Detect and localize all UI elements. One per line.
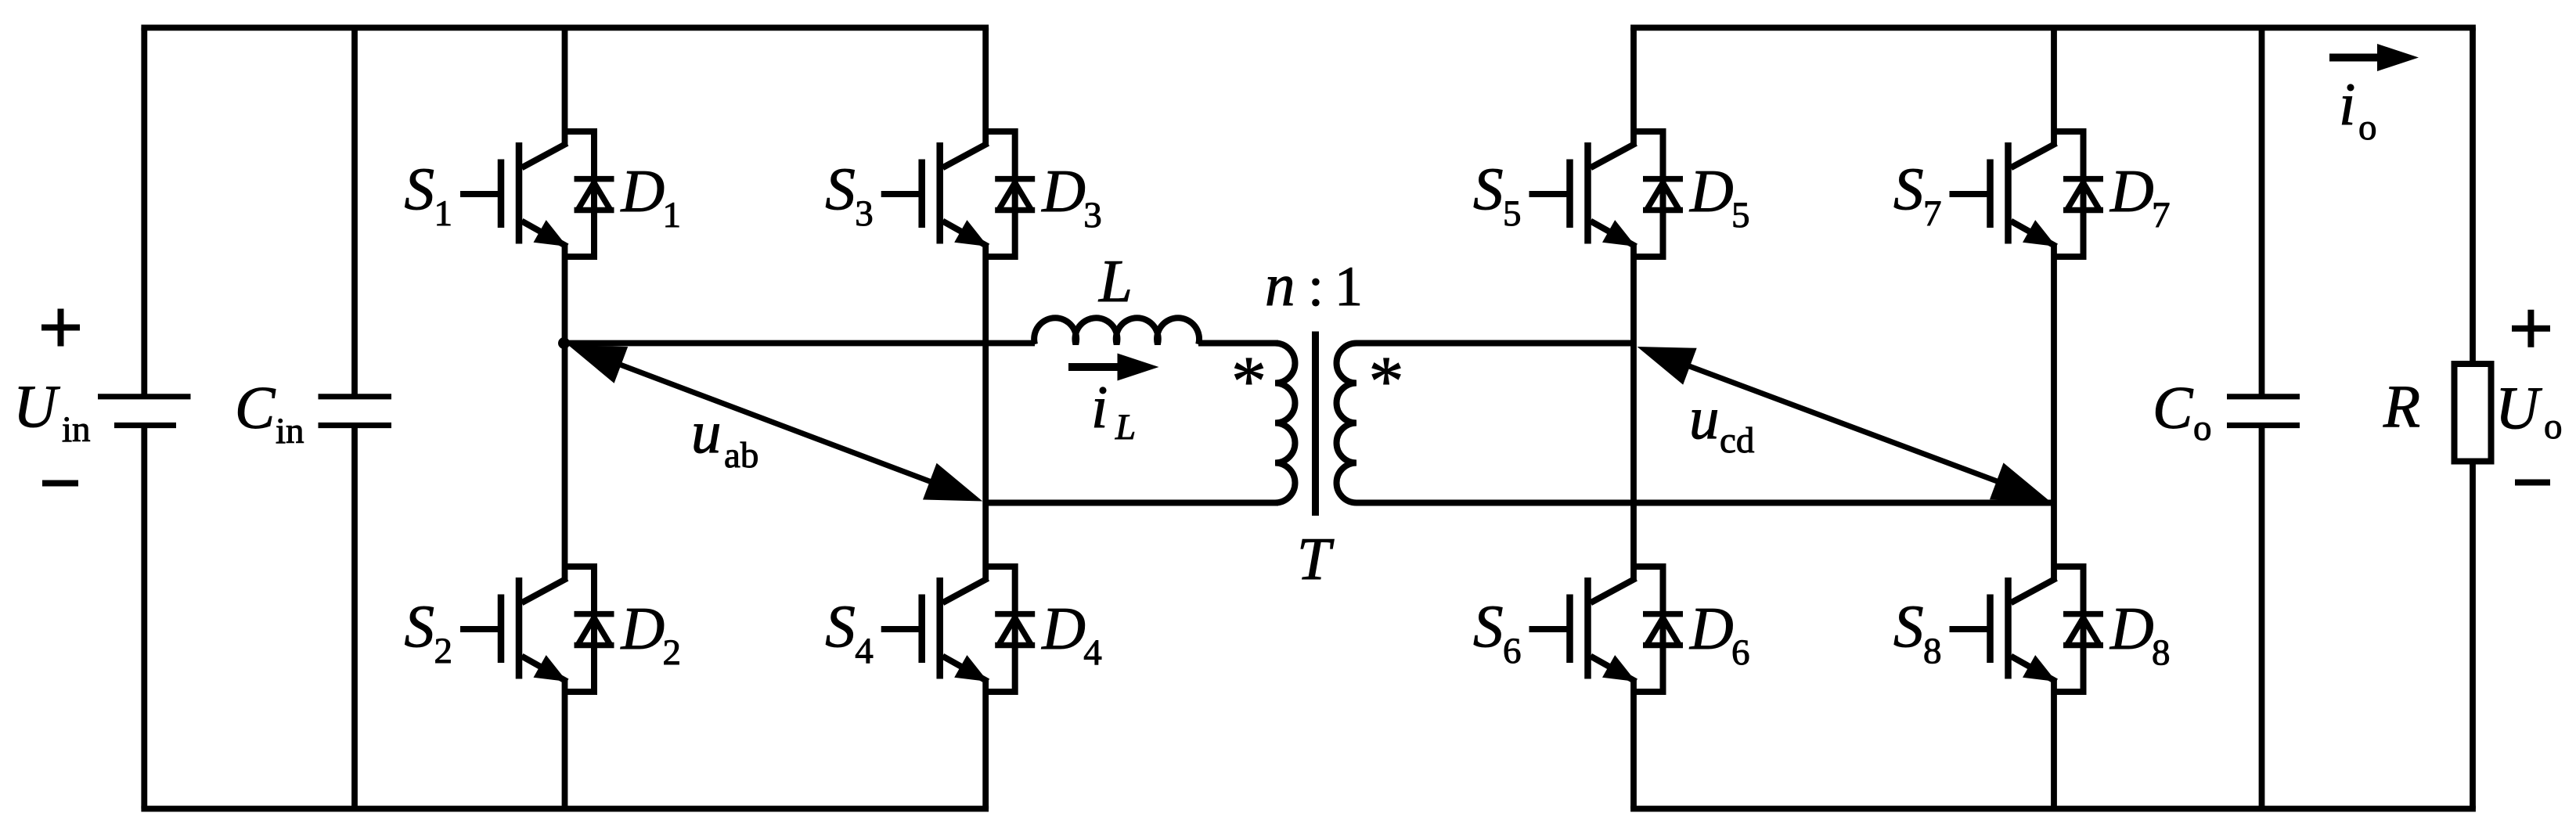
wire: Co branch lower [2259,426,2265,809]
label + (output) [2512,326,2550,332]
svg-text:6: 6 [1731,632,1750,673]
wire: source branch lower [141,426,147,809]
inductor L [1034,318,1199,344]
node a junction dot [558,337,570,349]
wire: load branch upper [2470,27,2476,364]
wire: leg A upper (rail to top switch) [562,27,568,146]
svg-text:T: T [1297,525,1335,592]
arrow ucd (node c to node d) [1637,347,2050,501]
arrow io [2329,54,2382,62]
wire: Cin branch upper [351,27,358,396]
wire: source branch upper [141,27,147,396]
svg-text:S: S [825,592,856,660]
diode D1 (antiparallel) [565,131,614,257]
svg-text:1: 1 [434,193,453,234]
svg-text:7: 7 [2152,195,2171,236]
svg-text:S: S [1893,592,1924,660]
svg-text:in: in [62,409,91,450]
wire: output-bridge bottom rail [1630,806,2476,812]
transistor S5 (IGBT) [1529,142,1637,246]
svg-text:cd: cd [1720,420,1754,461]
wire: leg D upper (rail to top switch) [2051,27,2057,146]
transistor S1 (IGBT) [460,142,567,246]
svg-text:*: * [1231,343,1266,420]
svg-text:S: S [1893,155,1924,222]
svg-text:L: L [1115,407,1136,448]
svg-text:u: u [1689,384,1720,452]
svg-text:o: o [2358,107,2377,148]
transistor S8 (IGBT) [1950,578,2057,682]
svg-text:6: 6 [1503,631,1522,671]
transistor S7 (IGBT) [1950,142,2057,246]
wire: Co branch upper [2259,27,2265,396]
svg-text:8: 8 [2152,632,2171,673]
svg-text:ab: ab [724,435,758,476]
wire: leg B lower (to bottom rail) [982,678,989,809]
transistor S2 (IGBT) [460,578,567,682]
svg-text:U: U [13,372,60,440]
svg-text:D: D [621,595,665,662]
svg-text:in: in [276,411,304,452]
wire: leg C upper (rail to top switch) [1630,27,1637,146]
battery Uin plate + [98,394,191,399]
wire: Cin branch lower [351,426,358,809]
svg-text:C: C [2153,374,2194,441]
svg-text:R: R [2383,372,2420,440]
transistor S6 (IGBT) [1529,578,1637,682]
svg-text:u: u [691,398,722,466]
wire: leg A lower (to bottom rail) [562,678,568,809]
transformer T secondary winding [1337,344,1357,503]
svg-text:2: 2 [434,631,453,671]
wire: transformer secondary to node d (crosses leg C) [1356,500,2054,506]
svg-text:S: S [405,155,435,222]
transistor S4 (IGBT) [881,578,989,682]
diode D2 (antiparallel) [565,567,614,692]
svg-text:i: i [2339,70,2355,138]
svg-text:D: D [1689,157,1734,225]
svg-text:S: S [1473,592,1504,660]
svg-text:2: 2 [663,632,682,673]
svg-text:S: S [405,592,435,660]
svg-text:D: D [621,157,665,225]
svg-text:D: D [1041,595,1086,662]
diode D3 (antiparallel) [985,131,1035,257]
svg-text:3: 3 [1083,195,1102,236]
svg-text:n: n [1265,251,1295,318]
svg-text:3: 3 [855,193,874,234]
svg-text:U: U [2495,374,2542,441]
wire: transformer secondary to node c [1356,340,1634,347]
wire: node b to transformer primary [985,500,1278,506]
wire: input-bridge top rail [141,25,989,31]
label - (output) [2515,480,2550,486]
wire: load branch lower [2470,462,2476,809]
svg-text:D: D [1689,595,1734,662]
svg-text:5: 5 [1503,193,1522,234]
svg-text:5: 5 [1731,195,1750,236]
svg-text:7: 7 [1923,193,1942,234]
arrow uab (node a to node b) [568,345,982,502]
svg-text:4: 4 [1083,632,1102,673]
svg-text:1: 1 [663,195,682,236]
capacitor Co plate top [2227,394,2300,399]
transformer T primary winding [1275,344,1295,503]
svg-text:L: L [1098,247,1133,315]
battery Uin plate - [114,423,176,428]
svg-text:1: 1 [1335,255,1363,318]
svg-text:C: C [235,374,276,441]
svg-text:*: * [1369,343,1404,420]
wire: input-bridge bottom rail [141,806,989,812]
wire: leg D middle (between switches) [2051,243,2057,581]
diode D7 (antiparallel) [2054,131,2103,257]
svg-text::: : [1308,255,1324,318]
diode D8 (antiparallel) [2054,567,2103,692]
capacitor Co plate bottom [2227,423,2300,428]
label - (input) [42,480,78,487]
diode D5 (antiparallel) [1634,131,1683,257]
wire: leg C lower (to bottom rail) [1630,678,1637,809]
capacitor Cin plate bottom [319,423,392,428]
wire: leg B middle (between switches) [982,243,989,581]
resistor R [2455,364,2491,462]
diode D4 (antiparallel) [985,567,1035,692]
wire: node a to inductor [561,340,1036,347]
svg-text:S: S [825,155,856,222]
wire: leg A middle (between switches) [562,243,568,581]
wire: inductor to transformer primary [1198,340,1278,347]
wire: leg C middle (between switches) [1630,243,1637,581]
svg-text:D: D [2109,595,2154,662]
arrow iL [1068,363,1121,371]
svg-text:o: o [2193,408,2212,448]
diode D6 (antiparallel) [1634,567,1683,692]
svg-text:o: o [2544,406,2563,447]
capacitor Cin plate top [319,394,392,399]
svg-text:i: i [1091,373,1108,441]
wire: leg D lower (to bottom rail) [2051,678,2057,809]
svg-text:D: D [2109,157,2154,225]
svg-text:D: D [1041,157,1086,225]
transistor S3 (IGBT) [881,142,989,246]
label + (input) [41,325,80,331]
wire: output-bridge top rail [1630,25,2476,31]
transformer core [1312,332,1319,516]
svg-text:8: 8 [1923,631,1942,671]
wire: leg B upper (rail to top switch) [982,27,989,146]
svg-text:4: 4 [855,631,874,671]
svg-text:S: S [1473,155,1504,222]
